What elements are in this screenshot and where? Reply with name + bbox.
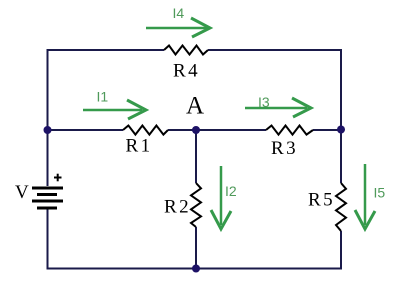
svg-text:R3: R3 bbox=[271, 138, 298, 159]
svg-text:I4: I4 bbox=[173, 5, 185, 21]
svg-text:I5: I5 bbox=[374, 185, 386, 201]
svg-text:A: A bbox=[186, 93, 204, 120]
svg-text:I2: I2 bbox=[225, 183, 237, 199]
svg-text:V: V bbox=[15, 182, 31, 203]
svg-text:I3: I3 bbox=[258, 94, 270, 110]
svg-text:R2: R2 bbox=[164, 197, 191, 218]
svg-text:I1: I1 bbox=[97, 89, 109, 105]
svg-text:R1: R1 bbox=[126, 136, 153, 157]
svg-text:R4: R4 bbox=[173, 61, 200, 82]
svg-text:R5: R5 bbox=[308, 190, 335, 211]
